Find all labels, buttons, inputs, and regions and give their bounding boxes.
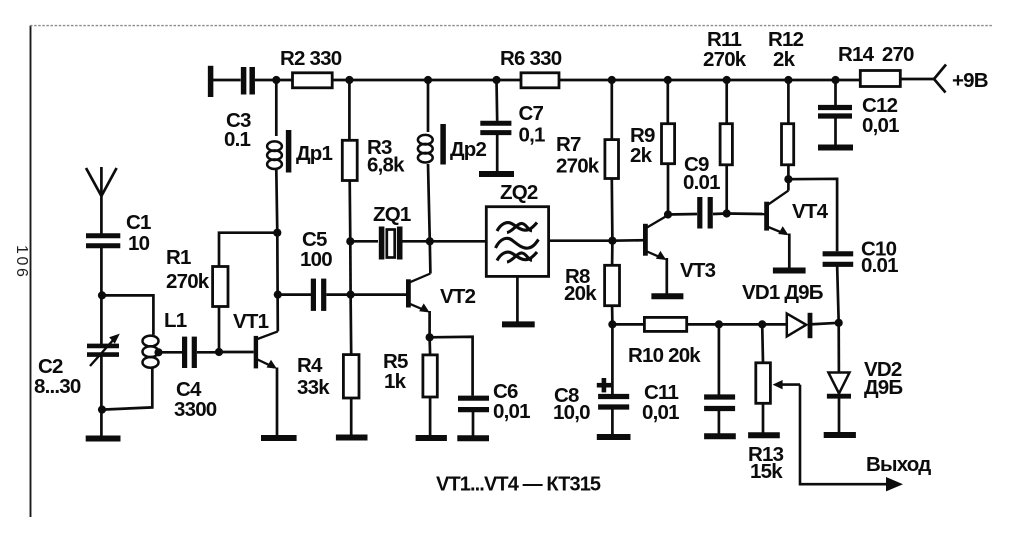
wire node to VT2 base (351, 293, 407, 296)
node junction R10/R13 (758, 320, 766, 328)
svg-text:0,01: 0,01 (493, 400, 530, 423)
resistor R4 (297, 354, 359, 399)
svg-text:10: 10 (128, 232, 150, 255)
node junction R12/VT4-collector/C10 (784, 175, 792, 183)
wire rail to C7 (495, 80, 498, 121)
svg-text:R2 330: R2 330 (280, 47, 342, 70)
node junction R3/ZQ1 (346, 237, 354, 245)
wire ZQ2 to ground (516, 276, 519, 322)
node junction C2/L1 bottom (98, 406, 106, 414)
capacitor C3 (224, 67, 252, 151)
ground (ZQ2) (502, 321, 535, 327)
wire L1 bottom to node (102, 368, 152, 410)
wire C11 from R10 node (718, 324, 721, 394)
node junction rail/R9 (664, 76, 672, 84)
wire node to VT4 base (727, 212, 765, 215)
wire rail to R7 (610, 80, 613, 140)
wire L1 to C4 (159, 351, 183, 354)
capacitor C11 (642, 381, 735, 424)
wire VT4-collector node to C10 (788, 179, 837, 252)
node junction VT2-emitter/R5/C6 (426, 333, 434, 341)
wire R13 from R10 node (761, 324, 764, 362)
wire R14 to +9V connector (900, 78, 934, 81)
filter ZQ2 (486, 181, 548, 276)
svg-text:0,1: 0,1 (519, 124, 545, 147)
node junction rail/R3 (345, 76, 353, 84)
wire R7 to ZQ2-output node (610, 179, 613, 241)
wire VT2-base node to R4 (349, 295, 352, 355)
wire C10 to VD1 node (837, 264, 839, 323)
capacitor C12 (818, 94, 899, 137)
svg-text:+9В: +9В (952, 69, 988, 92)
capacitor C2 (variable) (34, 295, 120, 409)
svg-text:C7: C7 (519, 102, 544, 125)
svg-text:Выход: Выход (866, 453, 931, 476)
node junction VD1/C10/VD2 (835, 319, 843, 327)
inductor Dr2 (choke) (418, 124, 487, 165)
node junction R1/Dr1-line (273, 229, 281, 237)
wire VD1 to node (810, 323, 839, 325)
ground (C6) (457, 435, 489, 441)
wire C7 to ground (496, 133, 499, 172)
resistor R11 (703, 28, 747, 165)
wire input terminal to C3 (210, 79, 241, 82)
resistor R8 (564, 265, 620, 306)
capacitor C9 (683, 153, 720, 229)
wire node to ground (100, 410, 103, 436)
capacitor C8 (electrolytic, +) (553, 378, 629, 424)
wire rail to R3 (348, 80, 351, 140)
capacitor C7 (480, 102, 545, 147)
inductor L1 (143, 309, 187, 368)
node junction C5 tap (274, 291, 282, 299)
wire VT2 emitter down (428, 311, 431, 337)
node junction rail/R12 (784, 76, 792, 84)
wire R2 to R6 (top rail) (332, 79, 521, 82)
svg-text:VT1: VT1 (233, 310, 269, 333)
svg-text:VT2: VT2 (440, 285, 476, 308)
wire emitter node to R5 (428, 337, 431, 355)
wire node to C8 (611, 324, 614, 394)
svg-text:VT1...VT4 — КТ315: VT1...VT4 — КТ315 (436, 474, 601, 496)
svg-text:C1: C1 (126, 211, 151, 234)
ground (C8) (597, 434, 631, 440)
capacitor C5 (300, 228, 332, 311)
svg-text:R1: R1 (166, 246, 191, 269)
capacitor C1 (86, 211, 151, 255)
svg-text:8...30: 8...30 (34, 375, 81, 398)
node junction C3/Dr1 (272, 76, 280, 84)
wire C5 to VT2 base node (326, 293, 350, 296)
node junction C4/R1/VT1-base (215, 348, 223, 356)
svg-text:0.1: 0.1 (224, 128, 250, 151)
resistor R6 (500, 47, 562, 88)
resistor R14 (838, 43, 914, 87)
wire rail node to C12 (834, 80, 837, 106)
transistor VT4 (767, 191, 829, 236)
node junction rail/C12 (831, 76, 839, 84)
wire rail to R9 (666, 80, 669, 124)
svg-text:Др2: Др2 (450, 138, 487, 161)
wire rail to R12 (787, 80, 790, 124)
wire C9 to VT4-base node (713, 212, 727, 215)
node junction C5/R4/VT2-base (347, 291, 355, 299)
inductor Dr1 (choke) (267, 130, 332, 173)
+9V connector fork (934, 65, 988, 93)
svg-text:2k: 2k (630, 144, 653, 167)
node A junction C1/C2/L1 (98, 291, 106, 299)
svg-text:3300: 3300 (174, 398, 217, 421)
wire R10 to VD1 (687, 323, 787, 326)
resistor R7 (556, 133, 619, 179)
svg-text:R4: R4 (297, 354, 323, 377)
svg-text:ZQ2: ZQ2 (500, 181, 538, 204)
wire VT3 emitter to ground (665, 258, 668, 295)
svg-text:0.01: 0.01 (861, 254, 898, 277)
capacitor C10 (823, 238, 898, 278)
wire ZQ2 output to R7/R8 node (549, 239, 613, 242)
svg-text:VT3: VT3 (680, 259, 716, 282)
ground (VD2) (824, 432, 856, 438)
potentiometer R13 (748, 363, 800, 483)
svg-text:270k: 270k (703, 48, 747, 71)
node junction rail/R7 (608, 76, 616, 84)
svg-text:Др1: Др1 (296, 142, 333, 165)
svg-text:2k: 2k (773, 48, 796, 71)
wire node to VD2 (837, 323, 840, 373)
svg-text:20k: 20k (564, 282, 597, 305)
wire R8 to R10 node (611, 306, 614, 325)
resistor R3 (342, 136, 405, 181)
wire node to VT1 base (219, 351, 254, 354)
wire R1 top to Dr1 line (219, 233, 277, 267)
transistor VT1 (233, 310, 278, 369)
wire C1 to node A (100, 247, 103, 296)
svg-text:15k: 15k (750, 460, 783, 483)
wire R9 to VT3-collector node (667, 164, 670, 215)
svg-text:ZQ1: ZQ1 (373, 203, 411, 226)
wire R13 to ground (762, 403, 765, 433)
wire node A to L1 top (102, 295, 153, 335)
svg-text:270k: 270k (166, 270, 210, 293)
svg-text:VT4: VT4 (792, 200, 829, 223)
ground (C11) (704, 433, 736, 439)
svg-text:R10 20k: R10 20k (628, 344, 701, 367)
wire C12 to ground (834, 116, 837, 145)
resistor R2 (280, 47, 342, 88)
node junction rail/Dr2 (424, 76, 432, 84)
svg-text:Д9Б: Д9Б (864, 376, 902, 399)
wire node to VT3 base (612, 239, 643, 242)
wire VT4 emitter to ground (788, 234, 791, 269)
wire R12 to VT4-collector node (787, 165, 790, 191)
wire C5 line from Dr1-line to C5 (278, 293, 311, 296)
wire R11 to VT4-base node (725, 165, 728, 214)
ground (R5) (416, 435, 447, 441)
transistor VT2 (408, 274, 475, 313)
resistor R1 (166, 246, 228, 307)
wire R13 wiper to output arrow (800, 385, 888, 485)
resistor R10 (628, 317, 701, 367)
node junction R8/R10/C8 (608, 320, 616, 328)
wire R5 to ground (429, 397, 432, 436)
ground (VT4) (773, 268, 806, 274)
wire R1 bottom to base node (218, 306, 221, 352)
svg-text:33k: 33k (297, 376, 330, 399)
ground (C7) (479, 171, 514, 177)
ground (R4) (336, 435, 368, 441)
wire antenna to C1 (100, 196, 103, 235)
svg-text:106: 106 (13, 245, 30, 280)
quartz resonator ZQ1 (373, 203, 411, 260)
capacitor C6 (458, 380, 530, 423)
wire emitter node to C6 (430, 337, 473, 396)
svg-text:R6 330: R6 330 (500, 47, 562, 70)
wire rail to R11 (725, 80, 728, 124)
resistor R12 (768, 28, 804, 165)
ground (VT1) (261, 435, 297, 441)
wire R8 node to R10 (612, 323, 644, 326)
wire C4 to VT1 base node (197, 351, 219, 354)
wire C6 to ground (472, 410, 475, 436)
antenna WA (86, 167, 117, 196)
svg-text:0.01: 0.01 (683, 171, 720, 194)
ground (C2/L1) (86, 436, 121, 442)
svg-text:10,0: 10,0 (553, 401, 590, 424)
resistor R5 (383, 350, 437, 397)
wire VT1 emitter to ground (276, 368, 279, 437)
svg-text:0,01: 0,01 (642, 401, 679, 424)
svg-text:0,01: 0,01 (862, 114, 899, 137)
wire R3 to ZQ1 node (348, 181, 351, 242)
svg-text:R7: R7 (556, 133, 581, 156)
ground (VT3) (651, 293, 683, 299)
wire rail to Dr2 (427, 80, 430, 132)
transistor VT3 (645, 215, 715, 282)
output arrow (Vykhod) (866, 453, 931, 491)
wire R4 to ground (350, 398, 353, 435)
wire C8 to ground (611, 407, 614, 436)
wire rail to Dr1 (275, 80, 278, 136)
wire Dr1 to VT1 collector (276, 170, 278, 331)
wire VD2 to ground (838, 396, 841, 433)
node junction rail/R11 (723, 76, 731, 84)
node junction C9/R11/VT4-base (723, 209, 731, 217)
capacitor C4 (174, 337, 217, 421)
diode VD2 (827, 358, 903, 399)
svg-text:1k: 1k (384, 370, 407, 393)
node junction R10/C11 (715, 320, 723, 328)
wire Dr2 to VT2 collector (428, 164, 430, 274)
svg-text:100: 100 (300, 248, 332, 271)
svg-text:6,8k: 6,8k (367, 154, 405, 177)
node junction ZQ2/R7/R8/VT3-base (608, 237, 616, 245)
wire ZQ1 left lead (350, 240, 378, 243)
node junction L1 tap / C4 (154, 348, 162, 356)
svg-text:270k: 270k (556, 155, 600, 178)
node junction ZQ1/Dr2/VT2-collector (426, 237, 434, 245)
wire R6 to R14 (top rail) (559, 79, 860, 82)
wire ZQ1 node to ZQ2 input (430, 240, 487, 243)
node junction R9/VT3-collector/C9 (664, 210, 672, 218)
wire ZQ1 right lead to Dr2/VT2 line (401, 240, 430, 243)
ground (C12) (818, 145, 853, 151)
wire C11 to ground (718, 409, 721, 435)
wire node to C9 (668, 213, 697, 216)
svg-text:L1: L1 (164, 309, 187, 332)
diode VD1 (742, 281, 823, 338)
resistor R9 (630, 124, 675, 167)
ground (R13) (748, 432, 780, 438)
svg-text:R14 270: R14 270 (838, 43, 914, 66)
node junction rail/C7 (492, 76, 500, 84)
wire ZQ1 node down to VT2 base node (349, 241, 352, 294)
wire C3 to R2 (top rail) (255, 79, 293, 82)
input terminal bar (208, 66, 214, 97)
svg-text:VD1 Д9Б: VD1 Д9Б (742, 281, 823, 304)
wire node to R8 (611, 241, 614, 266)
